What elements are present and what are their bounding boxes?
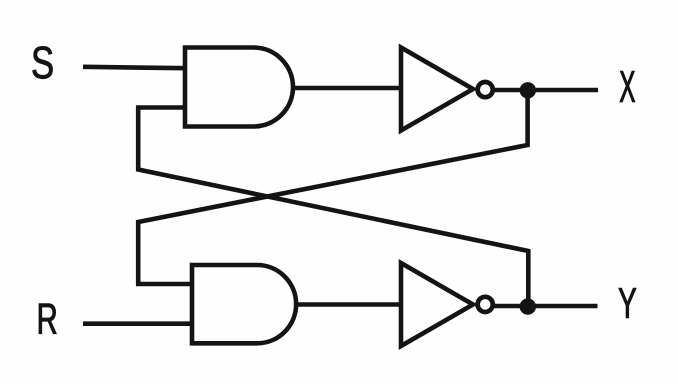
node Y label xyxy=(619,288,636,318)
wire S input xyxy=(83,67,187,68)
wire X output xyxy=(479,88,598,93)
wire G1 output to inverter xyxy=(293,86,403,91)
AND gate G1 (top) xyxy=(185,48,293,127)
inverter U2 (bottom) triangle xyxy=(401,263,473,346)
wire G2 output to inverter xyxy=(296,302,403,307)
inverter U1 bubble xyxy=(478,82,493,97)
wire R input xyxy=(83,321,193,326)
wire feedback Y to top gate input xyxy=(138,108,528,307)
node X label xyxy=(620,71,635,102)
node Y junction dot xyxy=(520,298,536,314)
AND gate G2 (bottom) xyxy=(192,265,296,343)
inverter U2 bubble xyxy=(478,297,493,312)
wire Y output xyxy=(479,304,598,309)
node R label xyxy=(39,304,56,334)
node S label xyxy=(33,46,53,78)
wire feedback X to bottom gate input xyxy=(138,91,527,284)
inverter U1 (top) triangle xyxy=(401,48,473,131)
node X junction dot xyxy=(520,82,536,98)
